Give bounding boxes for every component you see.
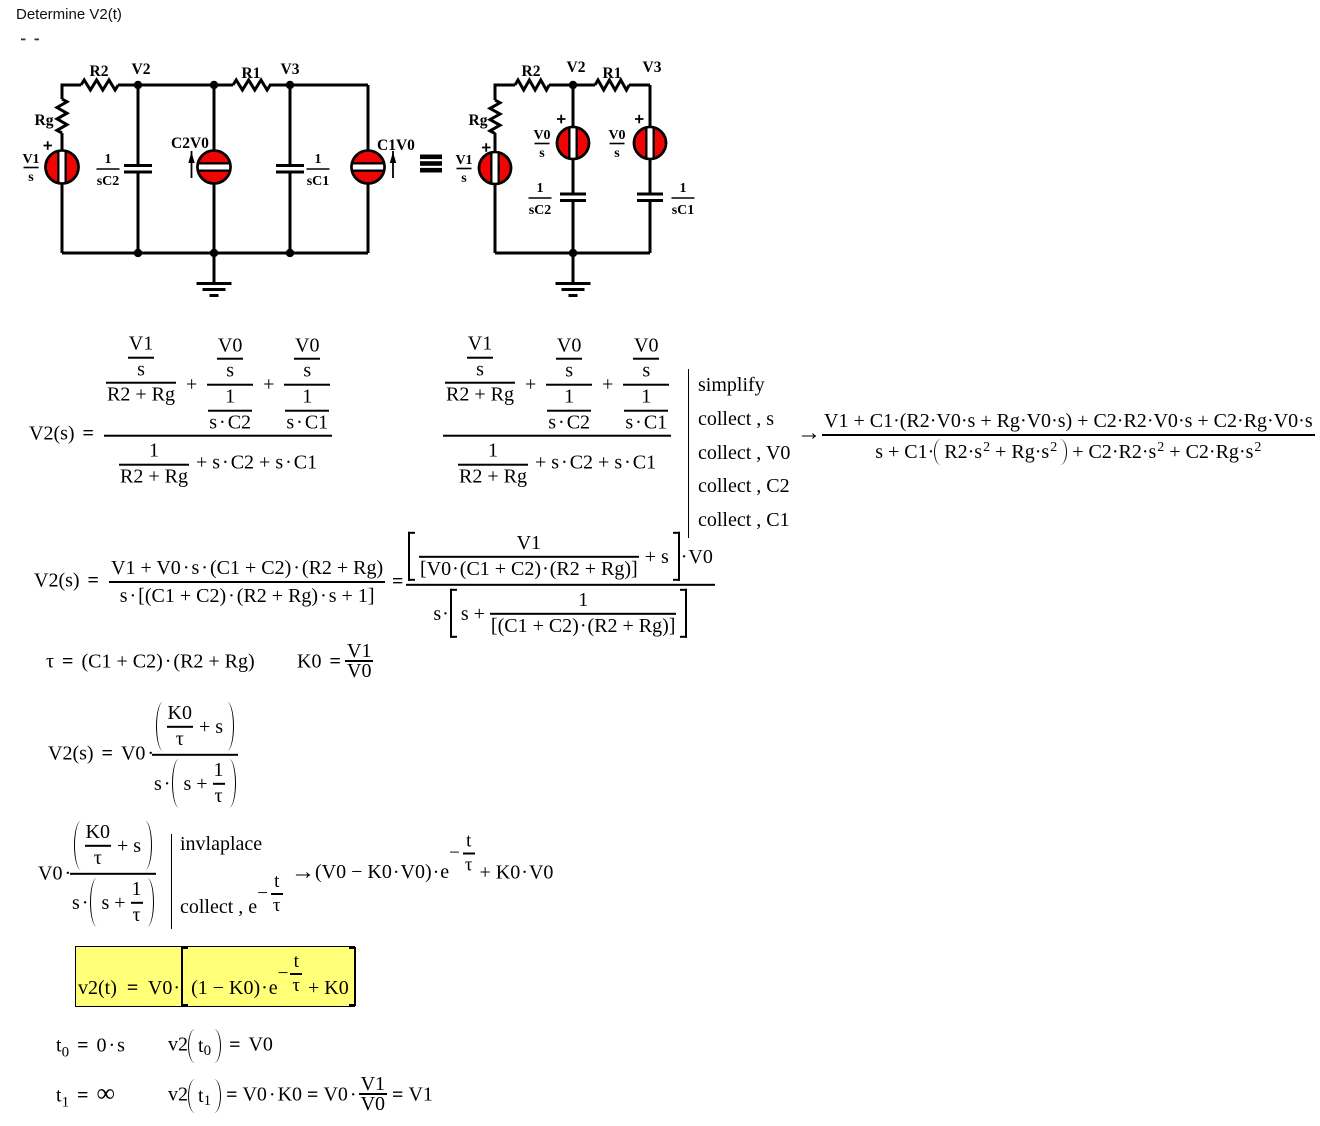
svg-text:sC2: sC2 bbox=[97, 174, 120, 189]
svg-text:C2V0: C2V0 bbox=[171, 135, 209, 152]
svg-text:V1: V1 bbox=[22, 152, 39, 167]
svg-text:V2: V2 bbox=[567, 59, 586, 76]
svg-text:R2: R2 bbox=[522, 63, 541, 80]
svg-text:s: s bbox=[539, 146, 545, 161]
svg-text:1: 1 bbox=[315, 152, 322, 167]
svg-text:1: 1 bbox=[680, 181, 687, 196]
svg-text:V3: V3 bbox=[281, 61, 300, 78]
svg-text:R1: R1 bbox=[242, 65, 261, 82]
svg-text:R2: R2 bbox=[90, 63, 109, 80]
svg-text:V0: V0 bbox=[533, 128, 550, 143]
svg-text:1: 1 bbox=[537, 181, 544, 196]
svg-text:V2: V2 bbox=[132, 61, 151, 78]
svg-text:sC1: sC1 bbox=[672, 203, 695, 218]
svg-text:V3: V3 bbox=[643, 59, 662, 76]
svg-text:sC2: sC2 bbox=[529, 203, 552, 218]
svg-text:sC1: sC1 bbox=[307, 174, 330, 189]
svg-text:s: s bbox=[614, 146, 620, 161]
svg-text:s: s bbox=[28, 170, 34, 185]
svg-text:V1: V1 bbox=[455, 153, 472, 168]
svg-text:C1V0: C1V0 bbox=[377, 137, 415, 154]
svg-text:V0: V0 bbox=[608, 128, 625, 143]
svg-text:Rg: Rg bbox=[35, 112, 54, 129]
svg-text:s: s bbox=[461, 171, 467, 186]
svg-text:1: 1 bbox=[105, 152, 112, 167]
svg-text:Rg: Rg bbox=[469, 112, 488, 129]
svg-text:R1: R1 bbox=[603, 65, 622, 82]
